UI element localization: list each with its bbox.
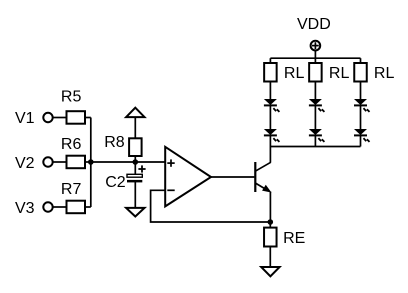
wire input bus vertical (90, 118, 92, 208)
transistor Q1 collector stroke (255, 162, 270, 171)
terminal V2 (43, 157, 52, 166)
junction node at R8 and C2 (133, 159, 139, 165)
LED D3 (309, 99, 325, 112)
junction emitter feedback node (268, 219, 274, 225)
LED branch 2 wires (314, 58, 316, 146)
op-amp U1 minus input mark (167, 189, 174, 191)
svg-text:R7: R7 (61, 181, 82, 198)
junction summing node on input bus (88, 159, 94, 165)
svg-text:R6: R6 (61, 136, 82, 153)
svg-text:V3: V3 (15, 200, 35, 217)
wire summing node to C2 (134, 162, 136, 174)
wire Q1 emitter to feedback node (269, 192, 271, 223)
wire top supply rail (270, 57, 360, 59)
svg-text:R5: R5 (61, 89, 82, 106)
wire feedback node to RE (269, 222, 271, 228)
wire Q1 collector to LED rail (269, 147, 271, 163)
svg-text:R8: R8 (104, 134, 125, 151)
LED D2 (264, 129, 280, 142)
svg-text:RE: RE (283, 230, 305, 247)
resistor R8 (129, 138, 142, 156)
op-amp U1 plus input mark (167, 159, 174, 166)
svg-text:C2: C2 (105, 174, 126, 191)
LED D4 (309, 129, 325, 142)
capacitor C2 (127, 174, 142, 182)
svg-text:V2: V2 (15, 155, 35, 172)
svg-text:V1: V1 (15, 110, 35, 127)
transistor Q1 emitter stroke with arrow (255, 183, 270, 192)
wire C2 to negative supply arrow (134, 182, 136, 208)
negative supply arrow below C2 (126, 208, 144, 217)
VCC power arrow above R8 (126, 108, 144, 117)
svg-text:RL: RL (284, 65, 305, 82)
wire V1 terminal to R5 (53, 117, 67, 119)
wire R6 to input bus (85, 161, 91, 163)
wire VCC arrow to R8 (134, 117, 136, 139)
LED branch 3 wires (360, 58, 362, 146)
LED D6 (354, 129, 370, 142)
ground symbol below RE (261, 267, 279, 276)
wire summing node to op-amp noninverting input (91, 161, 165, 163)
resistor RL branch 3 (354, 63, 367, 82)
wire bottom LED rail (270, 146, 360, 148)
resistor R6 (67, 156, 86, 169)
wire R7 to input bus (85, 206, 91, 208)
wire RE to ground (269, 247, 271, 268)
svg-text:VDD: VDD (297, 16, 331, 33)
resistor R5 (67, 111, 86, 124)
LED branch 1 wires (269, 58, 271, 146)
capacitor C2 polarity plus (138, 165, 145, 172)
resistor R7 (67, 201, 86, 214)
resistor RL branch 1 (264, 63, 277, 82)
wire VDD flag to top rail (314, 51, 316, 59)
wire op-amp inverting input feedback (151, 190, 271, 222)
transistor Q1 base bar (254, 162, 256, 192)
resistor RE (264, 228, 277, 247)
LED D1 (264, 99, 280, 112)
wire R5 to input bus (85, 117, 91, 119)
wire R8 to summing node (134, 156, 136, 162)
resistor RL branch 2 (309, 63, 322, 82)
svg-text:RL: RL (329, 65, 350, 82)
op-amp U1 (165, 147, 211, 207)
terminal V1 (43, 113, 52, 122)
svg-text:RL: RL (374, 65, 395, 82)
terminal V3 (43, 202, 52, 211)
VDD power flag (311, 41, 321, 51)
LED D5 (354, 99, 370, 112)
wire op-amp output to Q1 base (211, 176, 254, 178)
wire V2 terminal to R6 (53, 161, 67, 163)
wire V3 terminal to R7 (53, 206, 67, 208)
